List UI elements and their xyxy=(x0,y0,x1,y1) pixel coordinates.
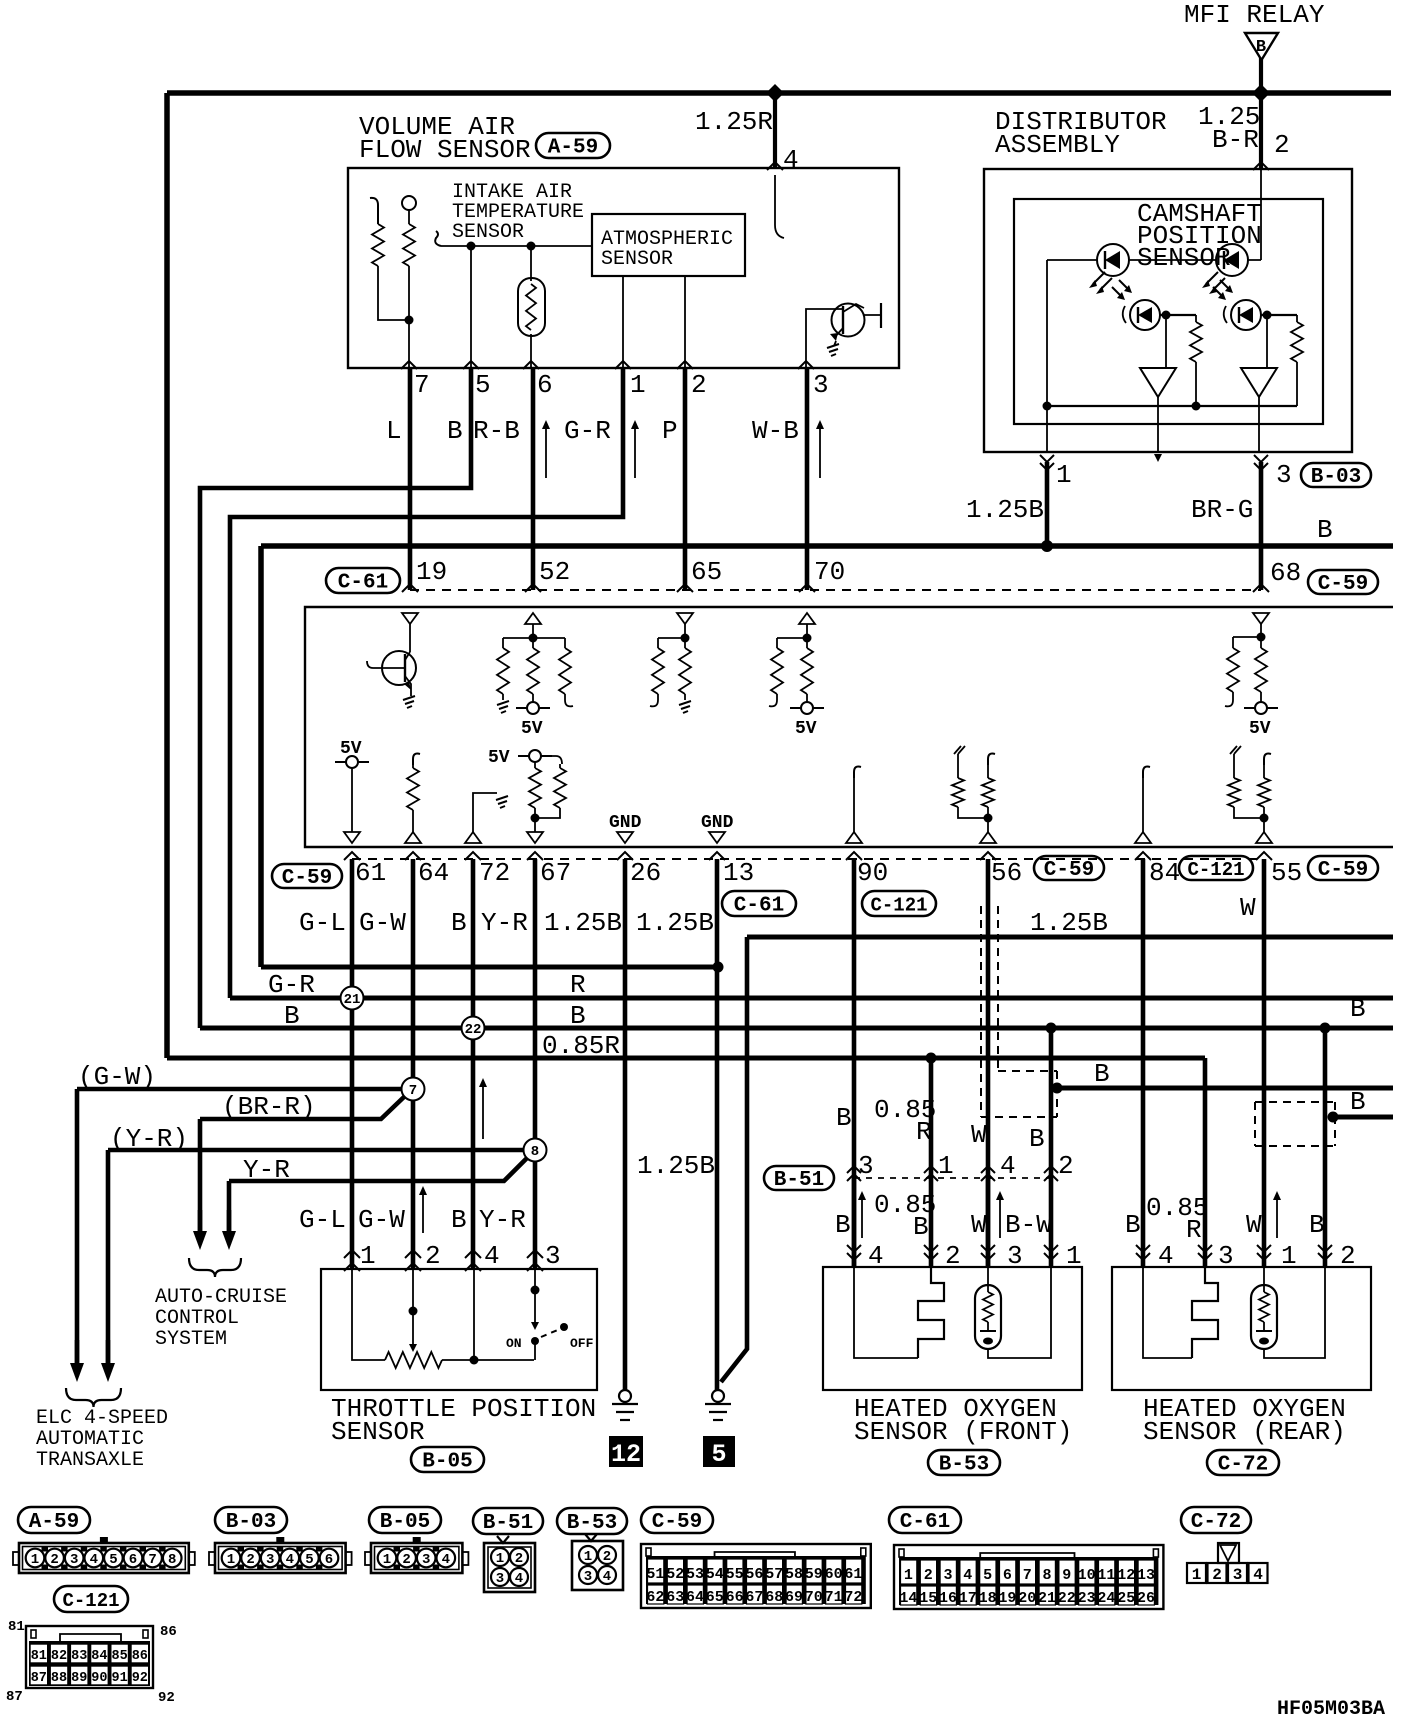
resistor VAF R1 xyxy=(370,198,378,224)
node 0.85R branch xyxy=(926,1053,937,1064)
ground VAF Q1 emitter xyxy=(827,344,839,356)
svg-text:91: 91 xyxy=(111,1671,127,1686)
svg-text:2: 2 xyxy=(402,1552,410,1568)
svg-text:B-W: B-W xyxy=(1005,1210,1052,1240)
svg-text:7: 7 xyxy=(414,370,430,400)
direction arrow B wire xyxy=(479,1078,487,1139)
connector label C-61 under pin13 xyxy=(722,891,796,918)
ECU box (engine control unit) xyxy=(305,607,1393,847)
connector face A-59 xyxy=(13,1537,195,1573)
svg-text:4: 4 xyxy=(783,145,799,175)
dashed connector row line C-61/C-59 xyxy=(410,589,1261,591)
ECU pin 13 triangle xyxy=(709,832,725,843)
wire amp2 output pin 3 inside xyxy=(1258,397,1260,452)
svg-text:B: B xyxy=(451,908,467,938)
wire (Y-R) branch to splice 8 xyxy=(108,1148,535,1153)
svg-text:21: 21 xyxy=(1038,1590,1056,1607)
wire B-51 pin4 to front O2 pin3 xyxy=(986,1178,991,1267)
svg-text:3: 3 xyxy=(496,1571,504,1587)
dashed connector row line B-51 xyxy=(854,1177,1051,1179)
svg-text:2: 2 xyxy=(691,370,707,400)
svg-text:82: 82 xyxy=(51,1649,67,1664)
node 67 bottom xyxy=(531,814,540,823)
connector label B-53 (bottom row) xyxy=(557,1508,627,1535)
svg-text:B: B xyxy=(835,1210,851,1240)
ECU pin 55 resistor pair xyxy=(1230,746,1241,754)
svg-text:B-05: B-05 xyxy=(422,1451,472,1474)
wire B takeoff front line xyxy=(1057,1086,1393,1091)
svg-text:68: 68 xyxy=(1270,558,1301,588)
svg-text:81: 81 xyxy=(8,1619,25,1635)
svg-text:B: B xyxy=(913,1212,929,1242)
svg-text:HF05M03BA: HF05M03BA xyxy=(1277,1698,1385,1720)
svg-text:62: 62 xyxy=(646,1589,664,1606)
ECU pin 65 triangle xyxy=(677,613,693,624)
svg-text:22: 22 xyxy=(1058,1590,1076,1607)
ECU pin 64 triangle xyxy=(405,832,421,843)
svg-text:P: P xyxy=(662,416,678,446)
resistor load at x=1196 xyxy=(1195,315,1197,322)
ground pin 72 xyxy=(496,796,508,808)
connector face B-05 xyxy=(365,1537,468,1573)
svg-text:1.25B: 1.25B xyxy=(637,1151,715,1181)
ELC arrow 2 xyxy=(101,1340,115,1382)
svg-text:51: 51 xyxy=(646,1566,664,1583)
ECU pin 55 triangle xyxy=(1256,832,1272,843)
node IAT wire / thermistor tap xyxy=(527,242,536,251)
svg-text:6: 6 xyxy=(537,370,553,400)
VAF sensor box xyxy=(348,168,899,368)
splice 7 (G-W) xyxy=(402,1078,425,1101)
wire pin61 5V to output xyxy=(351,768,353,832)
wire distributor common bottom rail xyxy=(1047,405,1297,407)
svg-text:ELC 4-SPEED: ELC 4-SPEED xyxy=(36,1407,168,1430)
wire distributor pin1 to B bus xyxy=(1045,462,1050,546)
resistor 52 left xyxy=(502,638,504,648)
TPS switch arm arrow xyxy=(534,1290,536,1324)
node junction bus / distributor pin2 feed xyxy=(1252,84,1270,102)
wire (Y-R) drop to ELC arrow xyxy=(106,1150,111,1364)
svg-text:3: 3 xyxy=(858,1151,874,1181)
svg-text:64: 64 xyxy=(418,858,449,888)
svg-text:A-59: A-59 xyxy=(29,1511,79,1534)
svg-text:B: B xyxy=(1094,1059,1110,1089)
svg-text:2: 2 xyxy=(1274,130,1290,160)
direction arrow P xyxy=(631,420,639,478)
phototransistor incident light arrows xyxy=(1213,280,1233,300)
wire pin2 down to LED rail xyxy=(1260,169,1262,260)
wire VAF Q1 base lead to pin 3 xyxy=(806,309,843,368)
svg-text:61: 61 xyxy=(355,858,386,888)
camshaft position sensor inner box xyxy=(1014,199,1323,424)
wire W-B pin3 to C-61 70 xyxy=(805,368,810,590)
bottom row chevrons xyxy=(344,852,360,860)
svg-text:R: R xyxy=(1186,1215,1202,1245)
svg-text:54: 54 xyxy=(706,1566,724,1583)
amplifier triangle xyxy=(1140,368,1176,397)
svg-text:B-03: B-03 xyxy=(1311,466,1361,489)
svg-text:L: L xyxy=(386,416,402,446)
O2 heater meander element xyxy=(918,1267,944,1358)
O2 heater meander element xyxy=(1192,1267,1218,1358)
svg-text:12: 12 xyxy=(1117,1567,1135,1584)
node 1.25B line / pin13 wire xyxy=(713,962,724,973)
svg-text:3: 3 xyxy=(943,1567,952,1584)
connector face C-72 xyxy=(1187,1543,1268,1584)
svg-text:AUTO-CRUISE: AUTO-CRUISE xyxy=(155,1286,287,1309)
svg-text:B: B xyxy=(570,1001,586,1031)
svg-text:C-59: C-59 xyxy=(1318,859,1368,882)
svg-text:5V: 5V xyxy=(795,719,817,739)
svg-text:56: 56 xyxy=(991,858,1022,888)
svg-text:60: 60 xyxy=(825,1566,843,1583)
svg-text:W: W xyxy=(971,1120,987,1150)
svg-text:B: B xyxy=(1256,38,1266,57)
node B branch front xyxy=(1046,1023,1057,1034)
direction arrow B-51 pin4 xyxy=(996,1191,1004,1238)
wire IAT bus to atmospheric sensor xyxy=(441,245,592,247)
svg-text:8: 8 xyxy=(531,1144,539,1160)
svg-text:14: 14 xyxy=(899,1590,917,1607)
IAT sensor squiggle lead xyxy=(435,231,441,246)
ECU pin 56 resistor pair xyxy=(954,746,965,754)
wire (BR-R) branch diagonal to splice 7 xyxy=(200,1096,405,1119)
svg-text:1: 1 xyxy=(360,1241,376,1271)
dashed connector row line C-59 bottom xyxy=(352,858,1264,860)
TPS pin1 internal wire xyxy=(352,1269,385,1360)
svg-text:26: 26 xyxy=(630,858,661,888)
svg-text:67: 67 xyxy=(745,1589,763,1606)
svg-text:8: 8 xyxy=(168,1552,176,1568)
connector label C-61 (row) xyxy=(326,568,400,595)
svg-text:1: 1 xyxy=(227,1552,235,1568)
TPS switch lever dashed to OFF xyxy=(541,1329,560,1337)
distributor assembly outer box xyxy=(984,169,1352,452)
svg-text:57: 57 xyxy=(765,1566,783,1583)
svg-text:92: 92 xyxy=(132,1671,148,1686)
svg-text:TRANSAXLE: TRANSAXLE xyxy=(36,1449,144,1472)
resistor VAF R2 (with circle terminal) xyxy=(402,196,416,210)
svg-text:GND: GND xyxy=(609,813,642,833)
svg-text:SYSTEM: SYSTEM xyxy=(155,1328,227,1351)
svg-text:C-72: C-72 xyxy=(1191,1511,1241,1534)
connector label B-53 xyxy=(928,1450,1000,1477)
rear O2 pin chevrons xyxy=(1136,1245,1150,1252)
connector face C-61 xyxy=(894,1545,1163,1609)
svg-text:A-59: A-59 xyxy=(548,137,598,160)
svg-text:18: 18 xyxy=(979,1590,997,1607)
svg-text:65: 65 xyxy=(691,557,722,587)
svg-text:87: 87 xyxy=(31,1671,47,1686)
node B branch rear xyxy=(1320,1023,1331,1034)
ECU pin 61 triangle xyxy=(344,832,360,843)
svg-text:1: 1 xyxy=(496,1551,504,1567)
svg-text:5V: 5V xyxy=(488,748,510,768)
node TPS pin2 xyxy=(409,1307,418,1316)
svg-text:4: 4 xyxy=(484,1241,500,1271)
svg-text:B-05: B-05 xyxy=(380,1511,430,1534)
TPS wiper arrowhead xyxy=(409,1344,417,1352)
node B takeoff front xyxy=(1052,1083,1063,1094)
B-51 row chevrons xyxy=(847,1166,861,1173)
TPS pin entry chevrons xyxy=(344,1250,360,1258)
connector label B-03 (bottom row) xyxy=(215,1507,287,1534)
wire B takeoff rear line xyxy=(1333,1115,1393,1120)
svg-text:B: B xyxy=(1309,1210,1325,1240)
wire B bus xyxy=(261,543,1393,549)
row chevrons xyxy=(402,584,418,592)
svg-text:5: 5 xyxy=(305,1552,313,1568)
svg-text:65: 65 xyxy=(706,1589,724,1606)
resistor 52 mid to 5V xyxy=(532,638,534,648)
svg-text:83: 83 xyxy=(71,1649,87,1664)
middle output arrowhead xyxy=(1154,454,1162,462)
node PT collector / amp feed xyxy=(1162,311,1171,320)
svg-text:2: 2 xyxy=(603,1549,611,1565)
svg-text:21: 21 xyxy=(344,992,361,1008)
svg-text:C-61: C-61 xyxy=(734,895,784,918)
node IAT wire / pin5 tap xyxy=(467,242,476,251)
svg-text:52: 52 xyxy=(539,557,570,587)
ECU pin 67 triangle xyxy=(527,832,543,843)
svg-text:1: 1 xyxy=(31,1552,39,1568)
svg-text:26: 26 xyxy=(1137,1590,1155,1607)
direction arrow W-B xyxy=(816,420,824,478)
svg-text:19: 19 xyxy=(416,557,447,587)
svg-text:SENSOR: SENSOR xyxy=(1137,243,1231,273)
node 52 bar xyxy=(529,634,538,643)
svg-text:B: B xyxy=(836,1103,852,1133)
wire B-51 pin2 to front O2 pin1 xyxy=(1049,1178,1054,1267)
ECU pin 19 input triangle xyxy=(402,613,418,624)
svg-text:9: 9 xyxy=(1062,1567,1071,1584)
auto-cruise arrow 1 xyxy=(193,1210,207,1250)
transistor VAF Q1 xyxy=(830,303,881,341)
wire distributor pin 1 exit xyxy=(1046,406,1048,452)
node 65 bar xyxy=(681,634,690,643)
svg-text:6: 6 xyxy=(325,1552,333,1568)
wire B trunk to rear O2 pin2 xyxy=(1323,1028,1328,1267)
svg-text:G-W: G-W xyxy=(358,1205,405,1235)
direction arrow G-R xyxy=(542,420,550,478)
wire G-L pin61 to TPS 1 xyxy=(350,859,355,1269)
TPS pot to pin4 wire xyxy=(442,1359,534,1361)
svg-text:68: 68 xyxy=(765,1589,783,1606)
svg-text:88: 88 xyxy=(51,1671,67,1686)
TPS pin4 internal wire xyxy=(473,1269,475,1360)
svg-text:86: 86 xyxy=(160,1624,177,1640)
connector face C-59 xyxy=(641,1544,871,1608)
wire pin4 internal stub with curl xyxy=(775,175,784,238)
ground symbol 5 xyxy=(712,1390,724,1402)
node junction bus / VAF pin4 feed xyxy=(766,84,784,102)
svg-text:AUTOMATIC: AUTOMATIC xyxy=(36,1428,144,1451)
svg-text:5: 5 xyxy=(983,1567,992,1584)
svg-text:1: 1 xyxy=(1192,1566,1202,1584)
connector label C-61 (bottom row) xyxy=(889,1507,961,1534)
svg-text:89: 89 xyxy=(71,1671,87,1686)
LED D1 (camshaft sensor left) xyxy=(1097,244,1129,276)
node TPS pin3 xyxy=(531,1286,540,1295)
svg-text:13: 13 xyxy=(1137,1567,1155,1584)
connector face B-51 xyxy=(484,1536,535,1592)
svg-text:1: 1 xyxy=(383,1552,391,1568)
ground tag 5 xyxy=(703,1436,735,1467)
svg-text:72: 72 xyxy=(479,858,510,888)
svg-text:2: 2 xyxy=(924,1567,933,1584)
transistor ECU Q19 xyxy=(367,651,416,696)
connector label C-121 under pin90 xyxy=(862,891,936,917)
heated oxygen sensor box C-72 xyxy=(1112,1267,1371,1390)
svg-text:71: 71 xyxy=(825,1589,843,1606)
wire (G-W) branch to splice 7 xyxy=(77,1087,413,1092)
svg-text:W-B: W-B xyxy=(752,416,799,446)
distributor pin2 entry chevron xyxy=(1253,162,1269,170)
svg-text:52: 52 xyxy=(666,1566,684,1583)
svg-text:3: 3 xyxy=(70,1552,78,1568)
VAF pin exit chevrons xyxy=(401,361,417,369)
svg-text:W: W xyxy=(1246,1210,1262,1240)
svg-text:C-121: C-121 xyxy=(62,1590,119,1612)
wire LED rail xyxy=(1047,259,1261,261)
svg-text:92: 92 xyxy=(158,1690,175,1706)
svg-text:B-53: B-53 xyxy=(567,1512,617,1535)
TPS potentiometer resistor xyxy=(385,1352,442,1368)
svg-text:Y-R: Y-R xyxy=(479,1205,526,1235)
svg-text:90: 90 xyxy=(857,858,888,888)
O2 sensing element capsule xyxy=(975,1285,1001,1349)
wire L pin7 to C-61 19 xyxy=(408,368,413,590)
wire tap to pin 5 xyxy=(470,246,472,368)
svg-text:10: 10 xyxy=(1078,1567,1096,1584)
svg-text:85: 85 xyxy=(111,1649,127,1664)
svg-text:24: 24 xyxy=(1097,1590,1115,1607)
wire B pin90 to HO2S front 4 xyxy=(852,859,857,1267)
svg-text:4: 4 xyxy=(286,1552,294,1568)
svg-text:1.25R: 1.25R xyxy=(695,107,773,137)
svg-text:15: 15 xyxy=(919,1590,937,1607)
svg-text:B-03: B-03 xyxy=(226,1511,276,1534)
connector label B-05 (bottom row) xyxy=(369,1507,441,1534)
wire top power bus B-R xyxy=(167,90,1391,96)
direction arrow rear O2 pin1 xyxy=(1273,1191,1281,1238)
svg-text:C-121: C-121 xyxy=(870,895,927,917)
svg-text:R-B: R-B xyxy=(473,416,520,446)
resistor load at x=1297 xyxy=(1296,315,1298,322)
svg-text:GND: GND xyxy=(701,813,734,833)
svg-text:5V: 5V xyxy=(521,719,543,739)
svg-text:SENSOR: SENSOR xyxy=(452,221,524,244)
node pin1 / B bus junction xyxy=(1041,540,1053,552)
connector label B-03 xyxy=(1301,463,1371,489)
wire Y-R branch diagonal to splice 8 xyxy=(229,1158,527,1181)
ECU pin 84 stub wire xyxy=(1143,767,1150,778)
wire B-51 pin3 to front O2 pin4 xyxy=(852,1178,857,1267)
svg-text:2: 2 xyxy=(515,1551,523,1567)
svg-text:B: B xyxy=(447,416,463,446)
wire left trunk (bus left end down page edge) xyxy=(164,93,170,1058)
svg-text:13: 13 xyxy=(723,858,754,888)
TPS ON contact xyxy=(531,1337,539,1345)
node common rail left xyxy=(1043,402,1052,411)
shield dashed box front xyxy=(980,906,982,1117)
wire BR-G pin3 down to C-61 68 xyxy=(1259,462,1264,590)
svg-text:6: 6 xyxy=(129,1552,137,1568)
wire B-R bus to distributor pin 2 xyxy=(1259,93,1263,169)
TPS OFF contact xyxy=(560,1323,568,1331)
direction arrow G-W wire xyxy=(419,1186,427,1233)
wire 1.25B cross line (B bus to ground 5) xyxy=(261,965,718,970)
wire B pin84 to HO2S rear 4 xyxy=(1141,859,1146,1267)
phototransistor at x=1145 xyxy=(1123,300,1160,330)
ECU pin 72 triangle xyxy=(465,832,481,843)
svg-text:1.25B: 1.25B xyxy=(1030,908,1108,938)
connector label C-59 left xyxy=(272,864,342,890)
resistor 70 right to 5V xyxy=(806,638,808,648)
brace ELC xyxy=(66,1388,121,1407)
connector label B-05 under TPS xyxy=(411,1447,484,1474)
node VAF R1/R2 junction xyxy=(405,316,414,325)
svg-text:87: 87 xyxy=(6,1689,23,1705)
svg-text:G-W: G-W xyxy=(359,908,406,938)
svg-text:16: 16 xyxy=(939,1590,957,1607)
resistor 67 right xyxy=(559,764,561,768)
svg-text:58: 58 xyxy=(785,1566,803,1583)
amplifier triangle xyxy=(1241,368,1277,397)
wire G-R pin1 bend to left trunk xyxy=(230,368,623,998)
wire atmospheric sensor out 1 xyxy=(622,276,624,368)
node B takeoff rear xyxy=(1328,1112,1339,1123)
svg-text:ON: ON xyxy=(506,1336,522,1351)
svg-text:1: 1 xyxy=(904,1567,913,1584)
svg-text:4: 4 xyxy=(1253,1566,1263,1584)
svg-text:B: B xyxy=(1125,1210,1141,1240)
svg-text:2: 2 xyxy=(246,1552,254,1568)
node 68 bar xyxy=(1257,633,1266,642)
svg-text:OFF: OFF xyxy=(570,1336,594,1351)
node 56 bottom xyxy=(984,814,993,823)
svg-text:6: 6 xyxy=(1003,1567,1012,1584)
svg-text:55: 55 xyxy=(1271,858,1302,888)
connector label B-51 (bottom row) xyxy=(473,1508,543,1535)
connector label C-59 right of 56 xyxy=(1034,856,1104,882)
wire R-B pin6 to C-61 52 xyxy=(531,368,536,590)
svg-text:R: R xyxy=(570,970,586,1000)
wire G-W pin64 to TPS 2 xyxy=(411,859,416,1269)
ECU pin 64 resistor xyxy=(413,754,420,765)
ELC arrow 1 xyxy=(70,1340,84,1382)
svg-text:3: 3 xyxy=(584,1569,592,1585)
svg-text:3: 3 xyxy=(1233,1566,1243,1584)
svg-text:7: 7 xyxy=(148,1552,156,1568)
svg-text:B: B xyxy=(1029,1124,1045,1154)
svg-text:C-59: C-59 xyxy=(1318,573,1368,596)
node TPS pin4 junction xyxy=(470,1356,479,1365)
svg-text:BR-G: BR-G xyxy=(1191,495,1253,525)
distributor pin1 exit double chevron xyxy=(1040,463,1054,470)
svg-text:8: 8 xyxy=(1042,1567,1051,1584)
svg-text:B: B xyxy=(284,1001,300,1031)
svg-text:1: 1 xyxy=(1056,460,1072,490)
svg-text:3: 3 xyxy=(266,1552,274,1568)
heated oxygen sensor box B-53 xyxy=(823,1267,1082,1390)
TPS pin3 internal wire xyxy=(534,1269,536,1290)
svg-text:12: 12 xyxy=(611,1440,641,1469)
svg-text:5: 5 xyxy=(475,370,491,400)
svg-text:2: 2 xyxy=(1058,1151,1074,1181)
svg-text:5V: 5V xyxy=(1249,719,1271,739)
wire atmospheric sensor out 2 xyxy=(684,276,686,368)
